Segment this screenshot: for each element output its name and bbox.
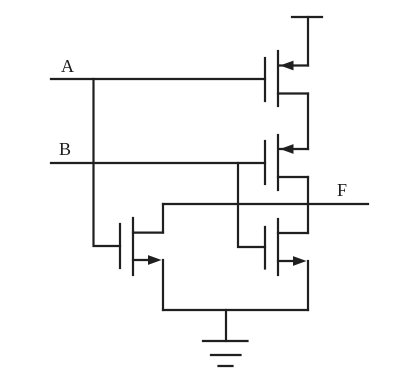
wire input A bbox=[51, 78, 265, 80]
svg-text:B: B bbox=[59, 139, 71, 159]
wire input B bbox=[51, 162, 265, 164]
transistor M2 PMOS bbox=[265, 135, 308, 190]
wire Q4 source to ground rail bbox=[307, 261, 309, 310]
wire F to Q3 drain bbox=[162, 204, 164, 233]
transistor Q4 NMOS bbox=[265, 219, 308, 275]
svg-text:F: F bbox=[337, 180, 347, 200]
wire M2 drain to Q4 drain bbox=[307, 177, 309, 233]
wire M1 drain to M2 source bbox=[307, 94, 309, 150]
transistor Q3 NMOS bbox=[120, 218, 163, 275]
wire A to Q3 gate bbox=[94, 79, 121, 246]
wire B to Q4 gate bbox=[238, 163, 265, 247]
output node F wire bbox=[163, 203, 368, 205]
ground bbox=[203, 310, 248, 366]
wire Q3 source to ground rail bbox=[162, 260, 164, 310]
ground rail wire bbox=[163, 309, 308, 311]
svg-text:A: A bbox=[61, 56, 74, 76]
power supply VDD bbox=[292, 17, 322, 66]
transistor M1 PMOS bbox=[265, 51, 308, 106]
